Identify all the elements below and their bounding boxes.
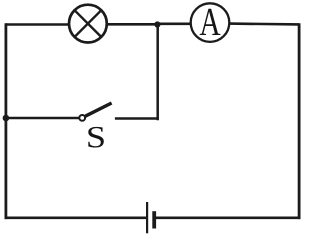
switch S label [88, 127, 103, 148]
wire: middle vertical from node A down to switch corner [156, 24, 159, 120]
wire: left side vertical [5, 23, 8, 219]
wire: bottom side, battery to right corner [156, 217, 301, 220]
wire: top side, left corner to lamp [6, 23, 69, 26]
wire: bottom side, left corner to battery [5, 217, 147, 220]
switch S pivot [79, 115, 85, 121]
wire: top side, node A to ammeter [158, 22, 192, 25]
ammeter U1 [191, 3, 230, 42]
wire: top side, lamp to node A junction [107, 23, 158, 26]
node A junction dot [154, 21, 160, 27]
wire: right side vertical [298, 23, 301, 219]
battery negative plate (short thick) [152, 211, 156, 228]
node B junction dot [3, 115, 10, 122]
wire: switch feed from node B to switch pivot [6, 117, 79, 120]
battery positive plate (long thin) [146, 202, 148, 233]
wire: top side, ammeter to right corner [229, 22, 299, 25]
switch S lever [85, 103, 111, 116]
wire: switch contact horizontal to middle wire corner [115, 117, 159, 120]
lamp L1 (circle with X) [69, 5, 107, 43]
